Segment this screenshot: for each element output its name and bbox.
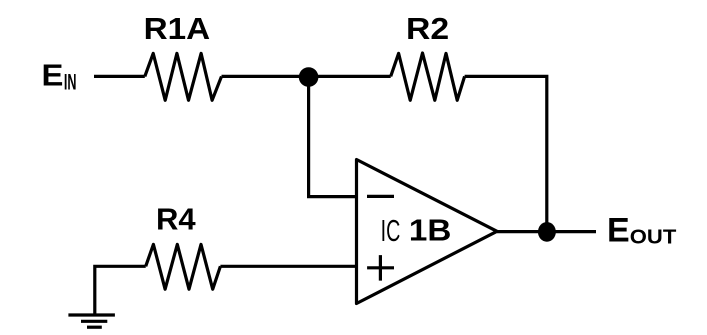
node B output junction dot [538,222,556,242]
op-amp inverting input minus sign [367,195,394,198]
wire E_IN to R1A [94,75,145,78]
label E_OUT [607,212,677,250]
svg-text:R2: R2 [406,11,449,46]
svg-text:IN: IN [64,69,77,94]
wire op-amp output to E_OUT [497,230,596,233]
svg-text:E: E [607,212,630,250]
svg-text:1B: 1B [409,213,452,248]
svg-text:OUT: OUT [630,226,677,249]
svg-text:E: E [42,58,64,93]
node E_IN label [42,58,77,95]
svg-text:R4: R4 [156,201,196,236]
resistor R1A [145,53,222,100]
svg-text:R1A: R1A [144,11,211,46]
wire ground to R4 [95,266,146,314]
resistor R2 [391,53,465,100]
wire R4 to non-inverting input [220,265,356,268]
wire R1A to R2 through node A [222,75,391,78]
node A junction dot [299,67,319,87]
wire node A to inverting input [309,77,357,197]
op-amp non-inverting input plus sign [367,255,394,281]
svg-text:IC: IC [381,213,401,248]
op-amp U1 triangle [357,160,498,304]
wire R2 to output node B (feedback right side) [465,76,547,232]
ground symbol [68,315,115,327]
resistor R4 [146,244,221,289]
